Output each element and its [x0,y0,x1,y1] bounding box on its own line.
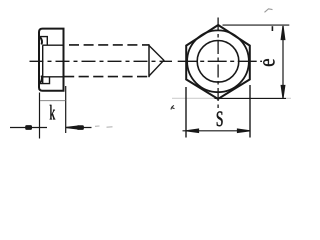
bolt tip chamfer [149,46,164,77]
dimension S line with arrows [183,129,251,132]
bolt tip end line [148,44,150,77]
label k [50,105,56,120]
hole circle inner [197,41,239,83]
dimension k line left with arrow [10,126,47,130]
head chamfer arc bottom [40,76,42,84]
head inner vertical [42,45,44,83]
dimension k extension right [65,86,67,133]
dimension e extension bottom [215,97,287,99]
shank bottom dashed [64,76,149,78]
label e [263,59,274,66]
stray tick at top extension [271,26,273,31]
shank bottom line in head [43,76,64,78]
hex head vertical centerline [217,18,219,112]
scan streak [172,97,291,99]
centerline bolt axis [30,60,173,62]
dimension S extension left [185,87,187,138]
hexagon outline [186,25,250,99]
dimension e extension top [223,24,290,26]
faint head projection line [40,100,66,102]
dimension S extension right [249,85,251,138]
dimension k extension left [39,93,41,139]
faint diagonal speck top right [265,9,273,13]
faint specks [95,125,100,127]
label S [217,111,223,126]
head chamfer arc top [40,37,42,45]
stray mark squiggle [171,106,175,110]
dimension e line [281,26,285,98]
shank top dashed [69,44,149,46]
chamfer circle outer [187,30,249,92]
head chamfer top line [39,37,47,46]
bolt head side view outline [39,29,64,91]
shank top line in head [43,44,64,46]
hex head horizontal centerline [178,60,262,62]
head chamfer bottom line [39,77,50,84]
dimension k line right with arrow [66,126,92,130]
